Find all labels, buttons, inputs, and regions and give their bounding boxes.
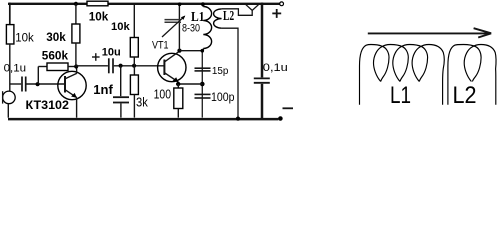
inductor L2 schematic [214,9,222,28]
wire L2 bottom to ground [222,28,238,117]
node collector junction [74,64,78,68]
svg-text:0,1u: 0,1u [4,63,27,75]
collector stroke VT1 [165,51,180,62]
svg-text:VT1: VT1 [152,40,169,52]
node divider junction [132,64,136,68]
node base junction [36,82,40,86]
wire mic to ground rail [7,104,9,118]
wire left vertical [9,3,11,25]
base bar VT1 [163,60,165,76]
wire node to cap [10,83,21,85]
resistor R 10k top (supply series) [87,1,108,6]
resistor 560k feedback [47,63,68,71]
svg-text:L1: L1 [390,82,411,109]
wire collector node to C2 [76,65,108,67]
winding direction arrow [368,32,489,34]
wire cap to base KT3102 [27,83,65,85]
capacitor C2 10u electrolytic plates [108,58,110,73]
svg-text:L2: L2 [223,8,234,23]
wire 15p/100p column [201,51,203,118]
transistor VT1 circle [158,53,186,81]
wire emitter row [178,83,202,85]
emitter stroke VT1 with arrow [165,73,179,82]
coil L2 winding drawing [448,45,496,105]
node 1nf tap [119,64,123,68]
svg-text:КТ3102: КТ3102 [26,98,70,112]
microphone BM1 [3,91,16,104]
antenna WA1 [246,5,252,11]
node collector tank junction [177,49,181,53]
svg-text:3k: 3k [136,95,148,109]
transistor VT KT3102 circle [58,71,86,99]
collector stroke [65,73,77,78]
capacitor 0,1u supply decoupling [261,3,264,78]
svg-text:100p: 100p [211,92,235,104]
node emitter junction [200,82,205,87]
svg-text:30k: 30k [46,31,66,44]
svg-text:10k: 10k [89,10,109,23]
capacitor C1 0,1u plates [21,77,23,92]
inductor L1 schematic [202,3,204,7]
svg-text:1nf: 1nf [93,82,113,97]
wire L2 top to antenna [222,9,253,16]
wire 560k to collector node [68,66,76,68]
svg-text:560k: 560k [42,49,69,63]
node - label [283,107,294,109]
wire C2 to divider node [114,65,165,67]
wire emitter to ground [76,98,78,118]
collector wire up [76,67,78,74]
wire feedback up [37,67,39,85]
variable capacitor 8-30 line [178,3,180,51]
capacitor 1nf [120,66,122,96]
variable capacitor arrow [162,16,185,37]
svg-text:L2: L2 [453,82,477,109]
resistor 3k divider lower [133,66,135,75]
svg-text:100: 100 [154,86,171,101]
svg-text:0,1u: 0,1u [263,62,288,74]
wire 30k to node [75,43,77,67]
resistor 30k collector load [74,2,78,6]
coil L1 winding drawing [360,45,445,105]
wire tank node [180,50,204,52]
variable capacitor plates [165,19,182,21]
svg-text:15p: 15p [212,66,229,77]
wire bottom ground rail [8,118,278,121]
resistor 100 emitter [177,84,179,88]
capacitor 100p plates [195,93,211,95]
svg-text:10u: 10u [102,47,121,59]
resistor R1 10k (mic bias) [6,25,13,44]
base bar [64,76,66,93]
wire top supply rail [8,3,280,5]
svg-text:10k: 10k [15,32,34,44]
svg-text:10k: 10k [111,21,130,33]
resistor 10k divider upper [133,4,135,38]
capacitor 15p plates [195,67,211,69]
node + label [272,12,281,14]
wire to 560k [38,66,47,68]
terminal + output circle [280,2,284,6]
terminal - output circle [279,117,283,121]
emitter stroke with arrow [65,90,77,98]
svg-text:L1: L1 [191,10,205,25]
polarity + mark [92,56,100,58]
wire R1 to mic node [9,44,11,91]
